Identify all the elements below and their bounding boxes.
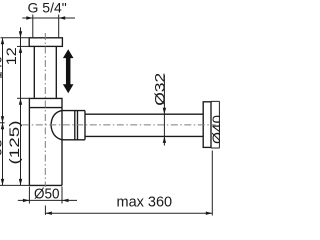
125 bottom arrow bbox=[19, 179, 22, 186]
cap top extension tick bbox=[17, 97, 29, 99]
left dim line outer bbox=[2, 38, 4, 186]
G5/4 dimension line bbox=[22, 17, 75, 19]
svg-text:Ø32: Ø32 bbox=[151, 73, 167, 106]
outer left butting arrows bbox=[1, 116, 4, 123]
max360 right arrow bbox=[206, 212, 213, 215]
O50 dim line bbox=[18, 199, 77, 201]
horizontal axis bbox=[22, 124, 215, 126]
trap cap bbox=[29, 98, 62, 107]
arrowheads bbox=[1, 16, 213, 215]
svg-text:12: 12 bbox=[3, 47, 19, 65]
cup body bbox=[29, 108, 62, 186]
O50 extensions below cup bbox=[29, 187, 62, 204]
svg-text:max 360: max 360 bbox=[117, 195, 173, 211]
outer left bottom arrow bbox=[1, 179, 4, 186]
max360 right extension bbox=[211, 151, 213, 216]
max360 dim line bbox=[45, 212, 212, 214]
hub-cup intersection curve bbox=[51, 111, 62, 140]
dimension lines, thin bbox=[0, 15, 220, 216]
vertical axis bbox=[44, 33, 46, 187]
nut G5/4 top bbox=[29, 38, 62, 47]
outlet pipe horizontal bbox=[85, 114, 203, 136]
svg-text:140: 140 bbox=[0, 56, 4, 79]
O40 extensions bbox=[211, 101, 220, 148]
O50 left arrow bbox=[23, 199, 30, 202]
12 top arrow bbox=[19, 31, 22, 38]
left dim line inner (12 /125) bbox=[20, 27, 22, 185]
O32 leader bbox=[163, 75, 165, 146]
max360 left arrow bbox=[45, 212, 52, 215]
axis tick far left bbox=[0, 122, 5, 124]
cup bottom extension left bbox=[0, 184, 29, 186]
thick adjustability arrow bbox=[63, 49, 74, 93]
centerlines bbox=[22, 33, 215, 187]
12 bottom arrow bbox=[19, 46, 22, 53]
G5/4 right arrow bbox=[59, 16, 65, 19]
O50 right arrow bbox=[62, 199, 69, 202]
max360 left extension tick bbox=[44, 206, 46, 215]
nut bottom extension bbox=[17, 45, 29, 47]
svg-text:Ø50: Ø50 bbox=[34, 186, 60, 203]
end nut right bbox=[203, 102, 211, 148]
O32 top arrow (outside, pointing down, tip at pipe top) bbox=[163, 108, 166, 115]
O40 dim line bbox=[218, 101, 220, 148]
outer left top arrow bbox=[1, 38, 4, 45]
125 top arrow bbox=[19, 98, 22, 105]
inlet tube vertical bbox=[34, 46, 56, 98]
nut top extension to left bbox=[1, 37, 30, 39]
svg-text:(125): (125) bbox=[6, 121, 22, 165]
svg-text:Ø40: Ø40 bbox=[209, 115, 220, 144]
G5/4 left arrow bbox=[26, 16, 33, 19]
svg-text:95: 95 bbox=[0, 139, 5, 156]
outlet hub bbox=[62, 111, 85, 140]
G5/4 extension lines bbox=[33, 15, 59, 38]
svg-text:G 5/4": G 5/4" bbox=[28, 0, 67, 16]
O32 bottom arrow (outside, pointing up, tip at pipe bottom) bbox=[163, 136, 166, 143]
